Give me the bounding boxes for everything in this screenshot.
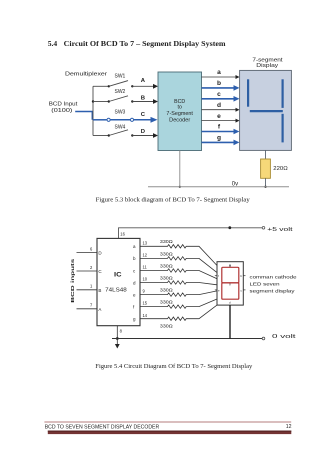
svg-text:e: e [217,113,221,120]
svg-text:10: 10 [143,277,148,282]
svg-text:A: A [98,307,101,312]
svg-text:(0100): (0100) [51,108,72,114]
resistor R1 220 ohm [261,159,271,178]
7-segment display DS2 (common cathode) [217,262,243,305]
svg-text:330Ω: 330Ω [160,323,173,328]
segment c lit [282,114,284,143]
footer rule thick [48,431,291,435]
svg-text:C: C [141,112,146,118]
svg-text:74LS48: 74LS48 [105,288,127,294]
wire segment d (inactive) [202,108,240,112]
svg-text:LED seven: LED seven [250,281,280,287]
pin e wire + resistor Re 330 ohm lead [140,291,217,296]
pin b tick [243,275,245,277]
svg-text:330Ω: 330Ω [160,288,173,293]
pin f tick [215,275,217,277]
wire segment b (active) [202,85,240,91]
segment digit 8 top square [222,267,239,283]
svg-text:Circuit Of BCD To 7 – Segment: Circuit Of BCD To 7 – Segment Display Sy… [64,39,227,48]
wire A to decoder [132,84,158,89]
terminal 0 volt [262,337,265,340]
switch SW1 (open) [93,81,134,88]
wire display to resistor [265,150,267,159]
svg-text:BCD TO SEVEN SEGMENT DISPLAY D: BCD TO SEVEN SEGMENT DISPLAY DECODER [45,424,160,430]
svg-text:b: b [217,80,221,87]
svg-text:SW3: SW3 [115,110,126,116]
wire D to decoder [132,133,158,138]
svg-text:IC: IC [114,272,122,279]
wire decoder to ground [179,151,181,187]
pin c tick [243,289,245,291]
wire cathode to ground [229,305,231,338]
op IC U2 74LS48 [97,238,140,325]
wire BCD input (blue, active) [75,112,92,120]
svg-text:0 volt: 0 volt [272,334,296,340]
pin 8 wire [116,326,118,339]
svg-text:SW2: SW2 [115,89,126,95]
junction bus SW2 [92,100,94,102]
svg-text:5.4: 5.4 [48,39,58,48]
pin D wire [77,252,98,254]
svg-text:Decoder: Decoder [169,118,190,124]
switch SW3 (closed, active blue) [93,118,134,121]
wire segment g (active) [202,140,240,146]
wire input bus vertical [92,86,94,135]
footer rule thin [44,421,291,424]
svg-text:comman cathode: comman cathode [250,274,297,280]
svg-text:Display: Display [256,63,278,69]
svg-text:330Ω: 330Ω [160,251,173,256]
svg-text:12: 12 [286,424,292,430]
wire +5V rail [119,228,263,239]
pin c wire + resistor Rc 330 ohm lead [140,269,217,279]
svg-text:segment display: segment display [250,289,296,295]
pin a wire + resistor Ra 330 ohm lead [140,245,217,266]
ground rail 0 volt [112,338,262,340]
junction pin8-ground [116,337,119,340]
wire C to decoder (active) [134,117,158,123]
terminal +5 volt [262,227,265,230]
segment b lit [282,79,284,108]
svg-text:7-Segment: 7-Segment [166,111,193,117]
pin b wire + resistor Rb 330 ohm lead [140,257,217,273]
label common cathode text [250,274,297,294]
svg-text:c: c [217,91,221,98]
svg-text:220Ω: 220Ω [273,166,288,172]
ground symbol arrow [115,339,120,349]
svg-text:330Ω: 330Ω [160,275,173,280]
svg-text:A: A [141,78,146,84]
svg-text:BCD inputs: BCD inputs [70,258,76,302]
svg-text:Figure 5.4 Circuit Diagram: Figure 5.4 Circuit Diagram Of BCD To 7- … [95,363,253,370]
svg-text:Figure 5.3 block diagram of: Figure 5.3 block diagram of BCD To 7- Se… [96,197,251,204]
pin A wire [77,308,98,310]
svg-text:SW1: SW1 [115,74,126,80]
svg-text:D: D [141,129,145,135]
svg-text:to: to [178,105,182,111]
pin e tick [215,289,217,291]
wire segment c (active) [202,96,240,102]
svg-text:330Ω: 330Ω [160,239,173,244]
svg-text:g: g [217,135,221,142]
wire segment f (active) [202,129,240,135]
wire segment a (inactive) [202,75,240,79]
svg-text:d: d [217,102,221,109]
svg-text:+5 volt: +5 volt [267,227,293,233]
svg-text:11: 11 [143,265,148,270]
decoder U1 BCD to 7-Segment Decoder [158,72,202,151]
svg-text:0v: 0v [232,181,238,187]
pin g wire + resistor Rg 330 ohm lead [140,305,217,320]
wire B to decoder [132,99,158,104]
switch SW4 (open) [93,130,134,137]
pin C wire [77,270,98,272]
svg-text:B: B [141,96,145,102]
pin f wire + resistor Rf 330 ohm lead [140,299,217,308]
switch SW2 (open) [93,96,134,103]
wire segment e (inactive) [202,119,240,123]
svg-text:12: 12 [143,253,148,258]
svg-text:330Ω: 330Ω [160,263,173,268]
junction decoder-ground [179,186,181,188]
segment digit 8 bottom square [222,283,239,299]
junction on +5V rail [228,226,231,229]
svg-text:13: 13 [143,240,148,245]
segment g lit [250,110,283,112]
wire resistor to ground [265,178,267,187]
svg-text:330Ω: 330Ω [160,300,173,305]
segment f lit [247,79,249,106]
svg-text:B: B [98,288,101,293]
7-segment display DS1 [240,70,292,150]
junction resistor-ground [264,186,266,188]
heading 5.4 Circuit Of BCD To 7 - Segment Display System [48,39,227,48]
svg-text:SW4: SW4 [115,125,126,131]
pin d wire + resistor Rd 330 ohm lead [140,281,217,285]
label 7-segment Display title [252,58,283,69]
svg-text:BCD Input: BCD Input [49,102,78,108]
ground rail 0v [148,186,289,188]
pin B wire [77,289,98,291]
svg-text:a: a [217,69,221,76]
svg-text:14: 14 [143,313,148,318]
svg-text:15: 15 [143,301,148,306]
svg-text:Demultiplexer: Demultiplexer [65,72,107,78]
svg-text:16: 16 [120,232,125,237]
